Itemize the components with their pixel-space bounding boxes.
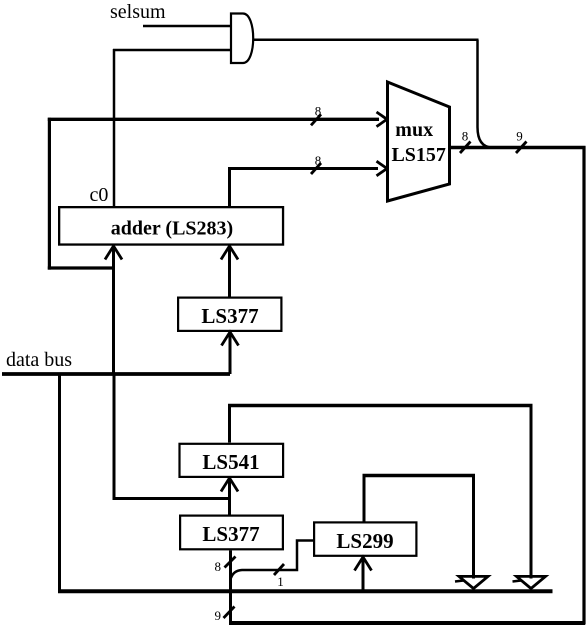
- slash 8 on mux output: [460, 142, 471, 154]
- wire lower bus to LS299 bottom vertical: [362, 557, 365, 592]
- svg-text:data bus: data bus: [6, 349, 72, 371]
- buffer U5 LS541 box: [180, 444, 284, 477]
- slash 8 on mux input A: [311, 114, 321, 125]
- svg-text:1: 1: [277, 574, 284, 589]
- wire adder output horizontal to mux input B: [228, 167, 378, 170]
- arrowhead into mux input A: [377, 112, 388, 127]
- svg-text:9: 9: [215, 608, 222, 623]
- wire feedback bottom horizontal to junction: [48, 266, 115, 269]
- wire feedback top horizontal to mux input A: [48, 118, 379, 121]
- slash 1 on serial branch: [274, 564, 284, 575]
- svg-text:LS157: LS157: [391, 144, 445, 166]
- and-gate U1: [231, 14, 253, 64]
- svg-text:LS377: LS377: [202, 522, 259, 546]
- mux U2 trapezoid: [388, 82, 450, 201]
- svg-text:8: 8: [462, 128, 469, 143]
- svg-text:adder (LS283): adder (LS283): [111, 218, 233, 240]
- svg-text:mux: mux: [395, 119, 433, 141]
- shift register U7 LS299 box: [314, 522, 416, 555]
- wire junction to U6 LS377 top vertical: [228, 499, 231, 515]
- arrowhead into U4 LS377 bottom: [222, 332, 239, 346]
- wire adder output vertical: [228, 167, 231, 206]
- slash 9 on bottom bus drop: [224, 607, 235, 619]
- slash 8 on mux input B: [311, 163, 321, 174]
- wire LS541 output horizontal: [228, 404, 533, 407]
- svg-text:8: 8: [315, 153, 322, 168]
- wire feedback left vertical: [48, 118, 51, 270]
- svg-text:LS541: LS541: [202, 450, 259, 474]
- svg-text:8: 8: [315, 104, 322, 119]
- ground symbol 1: [459, 576, 488, 588]
- slash 8 on U6 bottom wire: [225, 557, 236, 568]
- wire LS541 output right vertical to ground: [530, 404, 533, 579]
- wire U6 bottom vertical to bottom bus: [229, 551, 232, 624]
- svg-text:c0: c0: [90, 184, 109, 206]
- slash 9 on output bus: [516, 142, 527, 154]
- register U4 LS377 box: [178, 298, 281, 331]
- wire LS541 output vertical: [228, 404, 231, 443]
- register U6 LS377 box: [180, 516, 283, 550]
- svg-text:8: 8: [215, 559, 222, 574]
- wire bottom bus horizontal: [229, 621, 585, 625]
- adder U3 box: [59, 207, 283, 244]
- wire U1 input 2 horizontal: [113, 49, 231, 52]
- arrowhead into adder input 2: [221, 246, 238, 260]
- arrowhead into adder input 1: [105, 246, 122, 260]
- wire serial branch curve and horizontal: [231, 541, 313, 579]
- svg-text:LS377: LS377: [201, 304, 258, 328]
- svg-text:9: 9: [516, 128, 523, 143]
- wire data bus branch mid vertical: [113, 374, 116, 500]
- arrowhead into LS541 bottom: [221, 478, 238, 492]
- wire data bus horizontal: [2, 372, 230, 376]
- wire lower bus horizontal: [58, 589, 553, 593]
- wire junction to LS541 bottom vertical: [228, 478, 231, 499]
- wire data bus to U4 vertical: [229, 332, 232, 374]
- arrowhead into LS299 bottom: [355, 557, 372, 571]
- wire LS299 output horizontal: [363, 474, 476, 477]
- ground symbol 2 tick: [513, 581, 522, 582]
- wire LS377 to adder input 2 vertical: [228, 246, 231, 297]
- wire LS299 output vertical: [363, 476, 366, 522]
- wire data bus branch left vertical: [58, 374, 61, 593]
- wire data bus to adder input 1 vertical: [112, 246, 115, 374]
- wire horizontal to LS541 input: [114, 497, 230, 500]
- wire c0 net vertical: [113, 49, 116, 206]
- svg-text:LS299: LS299: [336, 529, 393, 553]
- svg-text:selsum: selsum: [110, 1, 166, 23]
- ground symbol 2: [517, 576, 546, 588]
- ground symbol 1 tick: [455, 581, 464, 582]
- wire mux output horizontal: [450, 146, 586, 150]
- wire U1 output horizontal: [253, 39, 479, 42]
- wire U1 output vertical with curve to mux output bus: [478, 40, 493, 148]
- arrowhead into mux input B: [377, 161, 388, 176]
- wire right side vertical: [582, 146, 585, 625]
- wire LS299 loop right vertical to ground: [472, 476, 475, 579]
- wire selsum to U1 input 1: [143, 25, 231, 28]
